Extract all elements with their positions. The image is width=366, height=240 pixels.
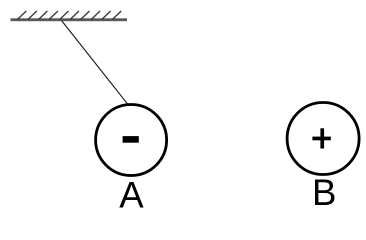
sphere A (negatively charged) (96, 105, 167, 176)
minus sign in sphere A (123, 136, 139, 143)
string from ceiling to sphere A (62, 21, 128, 105)
svg-text:A: A (119, 175, 144, 216)
svg-text:B: B (312, 172, 336, 213)
sphere B (positively charged) (287, 103, 359, 175)
ceiling hatch marks (17, 11, 121, 20)
ceiling support bar (11, 18, 128, 21)
plus sign in sphere B (312, 128, 330, 148)
